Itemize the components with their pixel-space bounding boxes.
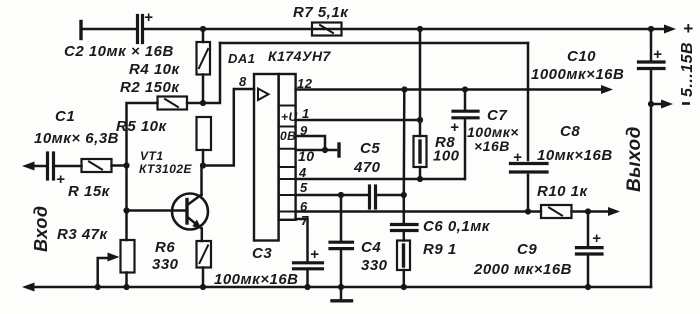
- capacitor C9: [577, 248, 603, 254]
- svg-text:С8: С8: [560, 123, 580, 140]
- svg-text:10мк×16В: 10мк×16В: [537, 147, 613, 164]
- terminal bar pin10: [337, 144, 340, 156]
- svg-text:+: +: [592, 230, 601, 247]
- capacitor C8: [511, 164, 548, 173]
- resistor R10: [541, 205, 572, 218]
- ground: [332, 287, 352, 301]
- node gnd C3: [304, 284, 310, 290]
- node output C8: [525, 208, 531, 214]
- wire pin8 link collector: [203, 89, 254, 166]
- IC cell divider: [279, 178, 296, 180]
- wire C9 to ground: [587, 256, 590, 288]
- svg-text:10: 10: [298, 148, 315, 164]
- node top right: [648, 26, 654, 32]
- wire collector up: [200, 166, 203, 196]
- svg-text:+U: +U: [281, 110, 298, 124]
- wire line B pin12 to C6: [403, 90, 406, 223]
- resistor R4: [197, 42, 211, 75]
- resistor R5: [197, 117, 212, 150]
- wire R8 bottom: [419, 167, 422, 179]
- node minus supply: [648, 101, 654, 107]
- svg-text:0В: 0В: [280, 129, 296, 143]
- IC cell divider: [279, 126, 296, 128]
- resistor R 15k: [82, 159, 112, 172]
- svg-text:R7 5,1к: R7 5,1к: [293, 4, 349, 21]
- wire base: [127, 209, 187, 212]
- svg-text:+: +: [310, 246, 319, 263]
- input arrow C1: [22, 162, 45, 171]
- wire feedback jog from R2 node up: [203, 43, 220, 103]
- IC cell divider: [279, 148, 296, 150]
- svg-text:С1: С1: [55, 108, 75, 125]
- node gnd C4: [338, 284, 344, 290]
- svg-text:R6: R6: [155, 239, 175, 256]
- svg-text:6: 6: [300, 199, 308, 214]
- IC cell divider: [279, 105, 296, 107]
- wire R4 vertical: [202, 29, 205, 42]
- svg-text:+: +: [513, 149, 522, 166]
- svg-text:+: +: [683, 19, 693, 38]
- svg-text:+: +: [144, 9, 153, 26]
- wire C7 vertical: [464, 90, 467, 110]
- svg-text:330: 330: [361, 257, 388, 274]
- capacitor C3: [294, 263, 323, 269]
- node pin10: [322, 147, 328, 153]
- IC DA1 pin column: [279, 74, 296, 220]
- node top R4: [200, 26, 206, 32]
- resistor R2: [158, 97, 188, 110]
- wire pin 4: [296, 178, 465, 181]
- node collector: [200, 162, 206, 168]
- resistor R3 trimmer: [121, 240, 135, 287]
- wire R2 right lead: [187, 102, 203, 105]
- wire R5 bottom to collector node: [202, 150, 205, 166]
- svg-text:R2 150к: R2 150к: [120, 79, 180, 96]
- IC DA1 main box: [254, 74, 279, 241]
- wire right rail top to C10: [650, 29, 653, 60]
- svg-text:5: 5: [300, 180, 308, 195]
- IC cell divider: [279, 166, 296, 168]
- ground arrow left: [22, 283, 35, 292]
- node gnd R3 wiper: [95, 284, 101, 290]
- node top R8 line: [417, 26, 423, 32]
- node pin12 lineB: [401, 86, 407, 92]
- capacitor C2: [138, 16, 143, 43]
- op-amp triangle inside DA1: [258, 89, 269, 101]
- wire pin 12 output line: [296, 85, 613, 94]
- wire pin 9 elbow: [296, 136, 325, 150]
- svg-text:R5 10к: R5 10к: [116, 118, 168, 135]
- svg-text:×16В: ×16В: [474, 138, 510, 154]
- wire R10 to output arrow: [572, 207, 621, 216]
- resistor R8: [414, 136, 427, 167]
- terminal input bar left of C2: [79, 22, 82, 39]
- wire node down to base node: [125, 166, 128, 211]
- wire C8 to output line: [527, 175, 530, 212]
- wire C4 to ground: [340, 250, 343, 287]
- svg-text:С3: С3: [252, 245, 272, 262]
- wire R2 left lead down to input node: [127, 103, 158, 166]
- wire feedback long top: [220, 42, 528, 45]
- node base: [123, 207, 129, 213]
- svg-text:R4 10к: R4 10к: [129, 61, 181, 78]
- wire emitter down: [201, 229, 204, 242]
- node output C9: [585, 208, 591, 214]
- svg-text:10мк× 6,3В: 10мк× 6,3В: [34, 130, 119, 147]
- svg-text:5...15В: 5...15В: [679, 42, 696, 97]
- trimmer R3 wiper arrow: [98, 253, 120, 288]
- wire line A top to R8: [419, 29, 422, 136]
- svg-text:R3 47к: R3 47к: [57, 226, 109, 243]
- svg-text:+: +: [653, 46, 662, 63]
- svg-text:С5: С5: [360, 140, 380, 157]
- wire base node down to R3: [125, 211, 128, 241]
- capacitor C6: [392, 225, 418, 231]
- wire ground rail: [33, 286, 651, 289]
- wire C3 to ground: [306, 270, 309, 287]
- capacitor C4: [330, 242, 353, 248]
- wire R to node: [112, 164, 127, 167]
- wire C4 vertical: [340, 195, 343, 240]
- wire right rail to ground: [650, 104, 653, 287]
- wire R9 to ground: [403, 270, 406, 287]
- IC cell divider: [279, 211, 296, 213]
- wire feedback down to C8: [527, 43, 530, 160]
- svg-text:DA1: DA1: [228, 51, 256, 66]
- svg-text:С7: С7: [487, 107, 507, 124]
- resistor R7: [312, 23, 342, 36]
- svg-text:R 15к: R 15к: [68, 183, 111, 200]
- svg-text:КТ3102Е: КТ3102Е: [139, 162, 193, 176]
- node gnd R9: [401, 284, 407, 290]
- wire pin 10: [296, 149, 336, 152]
- wire C10 to minus node: [650, 70, 653, 104]
- svg-text:С4: С4: [361, 239, 381, 256]
- node gnd C9: [585, 284, 591, 290]
- wire C5 to lineB: [377, 194, 405, 197]
- capacitor C1: [48, 153, 54, 179]
- svg-text:1: 1: [302, 106, 310, 121]
- node R/R2: [123, 162, 129, 168]
- node C5 lineB: [401, 192, 407, 198]
- svg-text:2000 мк×16В: 2000 мк×16В: [473, 261, 572, 278]
- svg-text:100мк×16В: 100мк×16В: [214, 271, 299, 288]
- wire C1 to R: [55, 165, 82, 168]
- svg-text:К174УН7: К174УН7: [268, 48, 332, 64]
- resistor R9: [397, 241, 410, 271]
- wire pin 6 output rail: [296, 210, 541, 213]
- svg-text:330: 330: [152, 256, 179, 273]
- wire supply to +terminal arrow: [651, 25, 676, 34]
- svg-text:470: 470: [353, 159, 381, 176]
- wire R6 to ground: [202, 268, 205, 288]
- node pin4 R8: [417, 176, 423, 182]
- svg-text:+: +: [450, 119, 459, 136]
- wire pin 1: [296, 119, 420, 122]
- svg-text:С9: С9: [517, 241, 537, 258]
- wire C7 bottom to pin4 line: [464, 120, 467, 180]
- svg-text:1000мк×16В: 1000мк×16В: [531, 66, 624, 83]
- wire C9 vertical: [587, 212, 590, 246]
- svg-text:8: 8: [239, 74, 247, 89]
- transistor VT1: [172, 194, 208, 230]
- wire pin 7 elbow down: [296, 219, 308, 262]
- svg-text:С6 0,1мк: С6 0,1мк: [423, 218, 491, 235]
- svg-text:9: 9: [300, 123, 308, 138]
- wire top supply rail right of C2: [145, 28, 652, 31]
- wire top supply rail: [81, 28, 136, 31]
- IC cell divider: [279, 194, 296, 196]
- svg-text:С2 10мк × 16В: С2 10мк × 16В: [64, 43, 174, 60]
- wire R4 to R2 node: [202, 75, 205, 104]
- svg-text:VT1: VT1: [140, 149, 164, 163]
- svg-text:Выход: Выход: [624, 126, 645, 192]
- wire pin 5: [296, 194, 367, 197]
- wire minus arrow: [651, 100, 673, 109]
- node pin12 C7: [462, 86, 468, 92]
- svg-text:R10 1к: R10 1к: [537, 183, 589, 200]
- svg-text:С10: С10: [567, 48, 596, 65]
- node R2/R4: [200, 100, 206, 106]
- node gnd R3: [123, 284, 129, 290]
- wire C6 to R9: [403, 232, 406, 241]
- label minus supply: [682, 102, 690, 105]
- svg-text:R9 1: R9 1: [423, 241, 457, 258]
- svg-text:+: +: [56, 171, 65, 188]
- capacitor C7: [453, 111, 478, 118]
- svg-text:100: 100: [433, 148, 460, 165]
- node pin1 lineA: [417, 117, 423, 123]
- capacitor C10: [639, 62, 665, 69]
- capacitor C5: [370, 186, 376, 208]
- svg-text:4: 4: [298, 165, 307, 180]
- svg-text:Вход: Вход: [31, 206, 51, 252]
- node gnd R6: [200, 284, 206, 290]
- svg-text:7: 7: [301, 213, 309, 228]
- svg-text:12: 12: [297, 76, 313, 91]
- resistor R6: [197, 241, 212, 268]
- node pin5 C4: [338, 192, 344, 198]
